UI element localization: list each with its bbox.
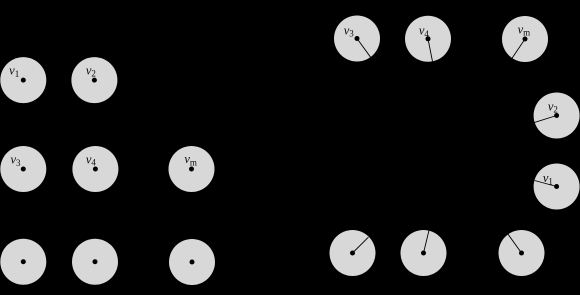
node v1 (left grid) bbox=[0, 57, 46, 103]
node v2 (left grid) bbox=[71, 57, 117, 103]
unlabeled node (ring, bottom-middle) with spoke bbox=[401, 230, 447, 276]
node v4 (left grid) bbox=[72, 146, 118, 192]
node v1 (ring, right lower) with spoke bbox=[534, 164, 580, 210]
unlabeled node (left grid bottom row, col 3) bbox=[169, 239, 215, 285]
node v3 (ring, top-left) with spoke bbox=[334, 16, 380, 62]
node v3 (left grid) bbox=[0, 146, 46, 192]
node v4 (ring, top-middle) with spoke bbox=[405, 16, 451, 62]
unlabeled node (ring, bottom-left) with spoke bbox=[330, 230, 376, 276]
unlabeled node (left grid bottom row, col 2) bbox=[72, 239, 118, 285]
node vm (ring, top-right) with spoke bbox=[502, 16, 548, 62]
unlabeled node (left grid bottom row, col 1) bbox=[0, 239, 46, 285]
node vm (left grid) bbox=[169, 146, 215, 192]
node v2 (ring, right upper) with spoke bbox=[534, 93, 580, 139]
unlabeled node (ring, bottom-right) with spoke bbox=[499, 230, 545, 276]
